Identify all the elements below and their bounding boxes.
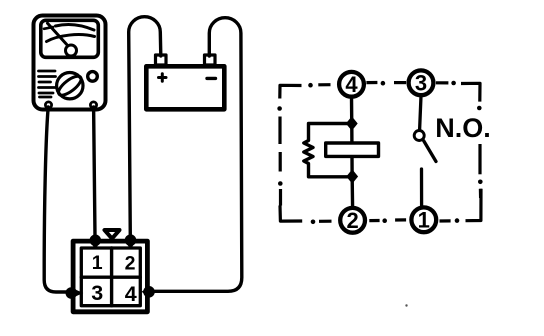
svg-text:1: 1 [418,208,430,233]
svg-text:2: 2 [125,253,136,275]
svg-text:N.O.: N.O. [435,113,491,143]
svg-text:4: 4 [125,282,137,306]
svg-text:3: 3 [91,281,103,305]
svg-text:2: 2 [346,208,358,233]
svg-text:1: 1 [92,252,103,274]
svg-text:3: 3 [415,71,427,96]
svg-text:4: 4 [345,72,358,97]
